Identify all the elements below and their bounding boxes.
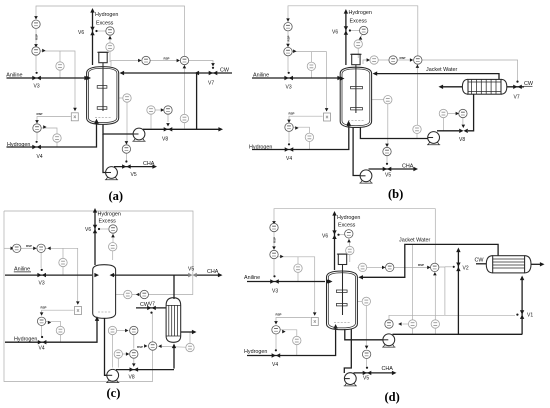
svg-text:RSP: RSP (273, 237, 277, 243)
HX left cap (462, 79, 468, 94)
svg-text:V5: V5 (131, 172, 137, 178)
instrument bubble FC hydrogen flow controller (272, 326, 280, 334)
instrument bubble FT jacket flow transmitter (439, 109, 447, 117)
svg-text:RSP: RSP (35, 34, 39, 40)
svg-text:Hydrogen: Hydrogen (14, 336, 37, 342)
signal TT to FC(V5) cascade (126, 102, 128, 144)
signal FFC to FC cascade (287, 31, 289, 47)
V8 actuator arrow (462, 125, 466, 128)
signal PT tap (109, 51, 111, 62)
svg-text:V3: V3 (34, 84, 40, 90)
reactor vessel R-d outer shell (327, 271, 358, 330)
signal drop to FT aniline (297, 257, 299, 282)
aniline inlet arrow (326, 279, 331, 283)
vent arrow up (90, 8, 94, 13)
signal TTb riser (412, 244, 414, 319)
arrow into ratio box (76, 301, 80, 304)
signal LT-LC link (155, 109, 163, 111)
signal PT tap (357, 48, 359, 58)
valve V5 (light) (188, 273, 197, 278)
V5 actuator (386, 163, 388, 165)
signal arrow into FC(V3) (34, 44, 38, 47)
valve V8 (459, 129, 468, 133)
hydrogen sparge arrow (95, 316, 99, 321)
signal arrow into TC (144, 344, 147, 348)
svg-text:(d): (d) (385, 390, 400, 404)
signal FT1-FC1 row (117, 330, 126, 332)
V4 actuator (288, 143, 290, 145)
svg-text:Hydrogen: Hydrogen (249, 144, 272, 150)
signal V6 to PC (99, 228, 108, 230)
vent arrow up (332, 211, 336, 216)
hydrogen sparge arrow (94, 119, 98, 124)
svg-text:Hydrogen: Hydrogen (349, 10, 372, 16)
instrument bubble FT aniline flow transmitter (56, 62, 64, 70)
signal arrow into FC(V3) (33, 247, 36, 251)
instrument bubble LT level transmitter (147, 106, 155, 114)
signal LT tap (150, 114, 152, 128)
signal FFC to FC cascade (35, 28, 37, 46)
signal to V2 actuator (445, 266, 452, 268)
instrument bubble PC pressure controller (360, 26, 368, 34)
svg-text:RSP: RSP (400, 56, 406, 60)
instrument bubble FFC ratio controller (13, 244, 21, 252)
signal FC(V3) to ratio drop (292, 52, 326, 111)
arrow into vessel (recycle) (110, 273, 115, 277)
FC output arrow (42, 49, 45, 53)
product discharge CHA line (369, 168, 415, 170)
signal TT-TC cascade (367, 266, 382, 268)
instrument bubble TC2 jacket temperature controller (414, 56, 422, 64)
svg-text:V6: V6 (85, 227, 91, 233)
instrument bubble TC temperature controller (389, 56, 397, 64)
instrument bubble TT cooling water outlet (186, 343, 194, 351)
svg-text:Hydrogen: Hydrogen (98, 212, 121, 218)
instrument bubble TC2 split range controller (431, 263, 439, 271)
arrow into vessel right (120, 71, 125, 75)
hydrogen inlet arrow (347, 122, 351, 127)
svg-text:RSP: RSP (164, 57, 170, 61)
svg-text:Aniline: Aniline (253, 73, 269, 79)
V3 actuator (273, 275, 275, 277)
svg-text:V1: V1 (527, 313, 533, 319)
signal PC-PT link (112, 233, 114, 242)
signal FFC to FC cascade (273, 232, 275, 249)
V7 actuator (212, 67, 214, 69)
svg-text:V3: V3 (272, 288, 278, 294)
instrument bubble FC(V5) controller (140, 290, 148, 298)
instrument bubble FC aniline flow controller (270, 250, 278, 258)
signal FC(V3) stem to V3 (35, 55, 37, 71)
signal PT tap (349, 255, 351, 262)
V3 actuator (288, 72, 290, 74)
signal FC2 to V8 (133, 358, 135, 363)
agitator shaft (355, 65, 357, 113)
signal V7 stem to TC (151, 314, 153, 342)
V3 actuator (41, 269, 43, 271)
liquid level dashes (98, 311, 111, 313)
aniline feed pipe (252, 77, 338, 79)
signal TC2 to split V1/V2 (439, 267, 445, 315)
signal arrow LT-LC (161, 108, 164, 112)
signal FC(V4) to FT(V4) (293, 127, 310, 149)
signal FT-FC link (448, 113, 458, 115)
signal vessel LT (357, 300, 362, 302)
instrument bubble PT pressure transmitter (354, 40, 362, 48)
liquid level dashes (334, 322, 350, 324)
arrow into ratio box (325, 108, 329, 111)
V6 actuator (337, 234, 339, 236)
reactor vessel R-b outer shell (340, 67, 371, 127)
svg-text:V8: V8 (129, 375, 135, 381)
agitator shaft (102, 63, 104, 111)
svg-text:Hydrogen: Hydrogen (244, 349, 267, 355)
signal FC(V3) stem (40, 253, 42, 269)
signal TT(cw) riser (189, 332, 191, 343)
HX baffle hatching (472, 79, 497, 94)
svg-text:RSP: RSP (41, 306, 47, 310)
svg-text:CHA: CHA (402, 163, 414, 169)
aniline feed pipe (7, 77, 86, 79)
product takeoff arrow (218, 127, 223, 131)
signal arrow PC-PT (108, 36, 112, 39)
signal FC(V4) stem to V4 (36, 132, 38, 140)
instrument bubble FC aniline flow controller (284, 47, 292, 55)
arrow into ratio box (73, 108, 77, 111)
CW inlet pipe (476, 263, 486, 265)
svg-text:V2: V2 (463, 265, 469, 271)
signal TT to TC cascade (378, 59, 391, 61)
hydrogen excess vent pipe (92, 11, 94, 65)
signal FTb riser to TC2 (434, 275, 436, 319)
signal arrow PC-PT (347, 239, 351, 242)
arrow into vessel right (358, 275, 363, 279)
HXd left cap (486, 256, 492, 273)
jacket pump PJ (427, 132, 440, 145)
V6 actuator (95, 30, 97, 32)
agitator paddle lower (336, 304, 347, 306)
pump discharge through V8 (116, 369, 174, 371)
jacket pump discharge to risers (393, 333, 523, 335)
agitator paddle upper (336, 290, 347, 292)
CW outlet arrow (439, 85, 444, 89)
V4 actuator (41, 336, 43, 338)
arrow mid recycle (195, 71, 200, 75)
jacket pump suction from vessel (360, 127, 428, 139)
instrument bubble PT pressure transmitter (106, 43, 114, 51)
CW label underline (524, 85, 533, 87)
signal FC(V4) stem (275, 334, 277, 351)
reactor vessel R-a jacket inner wall (88, 68, 117, 122)
instrument bubble PT pressure transmitter (109, 243, 117, 251)
svg-text:V6: V6 (322, 234, 328, 240)
signal vessel TT (357, 266, 358, 268)
signal TC2 to V7 (422, 60, 518, 81)
signal arrow into TC (138, 59, 141, 63)
svg-text:Aniline: Aniline (6, 73, 22, 79)
svg-text:V6: V6 (332, 29, 338, 35)
hydrogen inlet arrow (94, 119, 98, 124)
signal PC-PT link (349, 238, 350, 246)
svg-text:Hydrogen: Hydrogen (7, 142, 30, 148)
svg-text:V3: V3 (286, 85, 292, 91)
arrow up into jacket line (456, 248, 460, 253)
signal top run to V5 (4, 211, 193, 272)
signal vessel TT (119, 97, 123, 99)
vessel outlet to pumps (103, 124, 133, 134)
signal rail branch to FFC (4, 247, 12, 249)
svg-text:(c): (c) (107, 386, 121, 400)
jacket pump suction from vessel (345, 329, 384, 340)
instrument bubble TT product temperature (180, 114, 188, 122)
svg-text:RSP: RSP (276, 313, 282, 317)
svg-text:CW: CW (475, 258, 485, 264)
signal FC(V4) stem to V4 (288, 131, 290, 142)
liquid level dashes (95, 117, 111, 119)
instrument bubble FFC (ratio flow controller) (32, 20, 40, 28)
valve V6 (93, 225, 97, 234)
agitator shaft (342, 265, 344, 315)
svg-text:RSP: RSP (137, 345, 143, 349)
signal arrow into FC(V3) (286, 44, 290, 47)
signal FC(V4) to FT(V4) (41, 128, 57, 147)
agitator paddle lower (97, 107, 107, 110)
signal V6 to PC (96, 30, 106, 32)
svg-text:RSP: RSP (287, 35, 291, 41)
instrument bubble FFC ratio controller (284, 23, 292, 31)
signal arrow up into TC2 (416, 65, 420, 68)
FC output arrow (295, 126, 298, 130)
instrument bubble TC2 jacket temperature controller (180, 56, 188, 64)
svg-text:CHA: CHA (207, 269, 219, 275)
arrow up into HX bottom (520, 276, 524, 281)
instrument bubble FC product flow controller (383, 147, 391, 155)
svg-text:RSP: RSP (26, 244, 32, 248)
svg-text:V5: V5 (188, 267, 194, 273)
instrument bubble FC1 product flow controller (130, 326, 138, 334)
signal loop FFC to TC2 top run (36, 6, 185, 56)
valve V7 (513, 85, 522, 89)
instrument bubble TC temperature controller (386, 263, 394, 271)
signal vessel LT (372, 99, 384, 101)
svg-text:CHA: CHA (382, 366, 394, 372)
signal FC(V4) to FT(V4) (280, 330, 297, 356)
recycle riser (196, 73, 198, 129)
svg-text:Aniline: Aniline (244, 275, 260, 281)
signal FC(V3) to ratio drop (45, 248, 77, 302)
V1 actuator (516, 314, 518, 316)
signal arrow TT(cw) to TC (158, 344, 161, 348)
instrument bubble FT hydrogen flow transmitter (293, 336, 301, 344)
signal FT2 drop (117, 358, 119, 367)
instrument bubble FT aniline flow transmitter (307, 62, 315, 70)
instrument bubble LT level transmitter (384, 96, 392, 104)
vertical heat exchanger HXc shell (166, 298, 181, 343)
hydrogen excess vent pipe (334, 214, 336, 270)
valve V3 (270, 279, 279, 283)
signal arrow into TC2 (177, 59, 180, 63)
svg-text:(a): (a) (109, 189, 124, 203)
valve V6 (90, 27, 94, 36)
signal arrow into FC(V3) (272, 246, 276, 249)
signal FT1 drop (112, 335, 114, 368)
signal split line to V1 (445, 314, 515, 316)
svg-text:Excess: Excess (350, 19, 368, 25)
HX tube bundle lines (468, 82, 501, 92)
outlet drop to product pump (103, 134, 106, 173)
signal arrow into FC(V4) (287, 120, 291, 123)
CHA arrow (152, 164, 157, 168)
signal FTb tap (434, 328, 436, 334)
signal arrow up into TC2 (183, 65, 187, 68)
valve V6 (332, 230, 336, 239)
liquid level dashes (348, 120, 364, 122)
instrument bubble FFC ratio controller (270, 223, 278, 231)
hydrogen feed pipe (247, 328, 336, 356)
svg-text:V7: V7 (208, 81, 214, 87)
CW outlet pipe (181, 331, 193, 333)
HX right cap (501, 79, 507, 94)
svg-text:RSP: RSP (418, 263, 424, 267)
arrow into vessel right (373, 71, 378, 75)
signal vessel to TC line (111, 61, 139, 67)
instrument bubble FT2 (114, 350, 122, 358)
valve V5 (122, 164, 131, 168)
instrument bubble FT hydrogen flow transmitter (53, 134, 61, 142)
product pump P2 (359, 170, 372, 183)
valve V5 (363, 371, 372, 375)
signal arrow into FC(V4) (40, 312, 44, 315)
aniline arrow inside vessel (340, 76, 345, 80)
instrument bubble FC product flow controller (362, 350, 370, 358)
hydrogen feed pipe (5, 321, 97, 343)
reactor vessel R-a outer shell (87, 67, 119, 125)
signal product loop left/bottom run (4, 211, 153, 382)
V7 actuator (516, 81, 518, 83)
instrument bubble FT1 product flow transmitter (108, 326, 116, 334)
signal arrow FT-FC (456, 112, 459, 116)
aniline feed pipe (5, 274, 92, 276)
agitator paddle upper (351, 86, 363, 88)
signal PT tap (112, 251, 114, 260)
signal loop FFC to TC2 top run (288, 6, 418, 56)
svg-text:V3: V3 (39, 281, 45, 287)
signal drop to FT aniline (62, 248, 64, 275)
hydrogen sparge arrow (346, 121, 350, 126)
svg-text:V4: V4 (272, 362, 278, 368)
svg-text:Excess: Excess (338, 222, 356, 228)
svg-text:V4: V4 (39, 346, 45, 352)
signal drop to FT aniline (310, 52, 312, 78)
valve V3 (37, 273, 46, 277)
signal TC to TC2 cascade (397, 59, 410, 61)
valve V4 (32, 145, 41, 149)
product pump P2 (105, 167, 118, 180)
product line through V5 (195, 274, 219, 276)
signal TTb tap (412, 328, 414, 334)
svg-text:Excess: Excess (99, 219, 117, 225)
signal FC(V5) stem (386, 156, 388, 163)
signal LT to FC(V5) (365, 306, 367, 348)
V4 actuator (36, 141, 38, 143)
heat exchanger HXd shell (493, 256, 525, 273)
instrument bubble TT reactor temperature (358, 263, 366, 271)
hydrogen excess vent pipe (94, 211, 96, 265)
svg-text:V8: V8 (162, 137, 168, 143)
CW supply pipe (507, 86, 524, 88)
signal FC to V8 (462, 118, 464, 125)
product line to pump (353, 127, 360, 176)
jacket return from HX bottom (468, 94, 474, 131)
instrument bubble FT hydrogen flow transmitter (305, 133, 313, 141)
svg-text:V6: V6 (78, 30, 84, 36)
signal arrow FT2-FC2 (126, 352, 129, 356)
FC output arrow (282, 330, 285, 334)
valve V6 (344, 26, 348, 35)
V2 actuator (453, 266, 455, 268)
signal TC to TC2 cascade line (150, 60, 177, 62)
instrument bubble TT reactor temperature transmitter (123, 94, 131, 102)
column vessel C-c shell (93, 265, 116, 319)
valve V4 (285, 147, 294, 151)
ratio station box (324, 113, 331, 121)
CHA arrow (218, 273, 223, 277)
signal ratio box to FC(V4) (276, 318, 311, 324)
signal arrow into FC from right (47, 247, 50, 251)
signal FFC-FC row (21, 247, 35, 249)
signal LT to FC(V5) cascade (387, 104, 389, 146)
signal arrow TTb-TCb (398, 322, 401, 326)
valve V8 (164, 127, 173, 131)
valve V4 (38, 340, 47, 344)
signal V6 to PC (349, 30, 359, 32)
signal TCb-TTb row (403, 323, 409, 325)
product discharge CHA line (354, 372, 393, 374)
signal PC-PT link (360, 35, 363, 40)
signal arrow into TC2 (427, 266, 430, 270)
signal arrow into FC(V4) (35, 120, 39, 123)
svg-text:Jacket Water: Jacket Water (426, 67, 457, 73)
signal TT(cw) to TC (161, 345, 186, 348)
instrument bubble FTb jacket flow transmitter (431, 320, 439, 328)
signal TCb riser to split line (389, 315, 445, 319)
reactor vessel R-b jacket inner wall (342, 69, 370, 126)
recycle pump discharge line (143, 128, 219, 130)
signal FC(V5) stem (366, 359, 368, 367)
signal arrow into FFC (11, 247, 14, 251)
aniline inlet arrow inside vessel (94, 273, 99, 277)
product pump P2d (344, 373, 357, 386)
valve V3 (32, 76, 41, 80)
HXc tube sheets (166, 305, 181, 336)
signal LC to V8 (167, 114, 169, 122)
column outlet to pump (105, 318, 108, 375)
valve V4 (272, 353, 281, 357)
signal arrow PC-PT (359, 36, 363, 39)
svg-text:V4: V4 (286, 156, 292, 162)
signal FC(V3) to ratio drop (278, 257, 315, 314)
signal arrow into TT (136, 293, 139, 297)
signal FC(V4) to FT(V4) (46, 321, 61, 342)
V3 actuator (36, 72, 38, 74)
aniline inlet arrow (84, 76, 89, 80)
signal ratio box to FC(V4) (289, 116, 323, 122)
svg-text:Hydrogen: Hydrogen (337, 215, 360, 221)
signal arrow into FFC (34, 16, 38, 19)
signal arrow up into TC2 (433, 272, 437, 275)
product pump discharge CHA line (114, 166, 153, 168)
signal V6 to PC (339, 234, 345, 236)
